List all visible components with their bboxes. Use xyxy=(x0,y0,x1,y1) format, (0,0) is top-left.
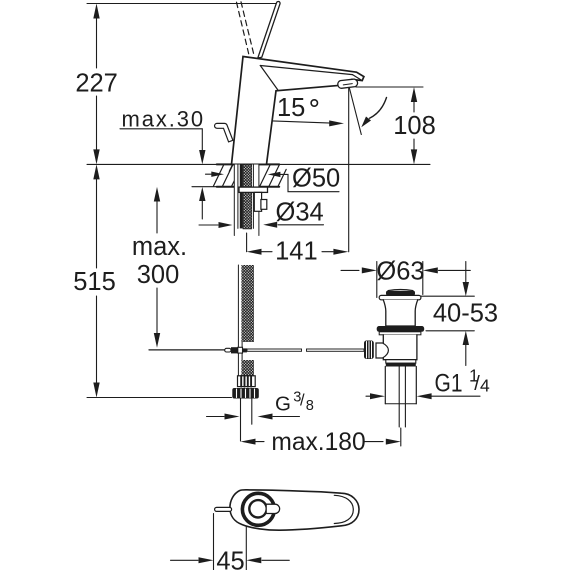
wire: deck/counter top line xyxy=(87,163,430,165)
wire: 15 degree slant line xyxy=(349,88,361,135)
pop-up waste: neck xyxy=(383,300,417,326)
hose end fitting xyxy=(238,376,256,387)
lever handle top view: outline xyxy=(230,490,359,530)
dimension Ø63 xyxy=(341,269,359,271)
handle lever dashed alternate position xyxy=(237,2,255,55)
pop-up waste: inner tube xyxy=(399,367,405,428)
svg-text:300: 300 xyxy=(137,261,180,289)
svg-text:Ø34: Ø34 xyxy=(276,198,324,226)
dimension 515 xyxy=(96,178,98,383)
aerator at spout tip xyxy=(338,79,358,88)
svg-text:Ø63: Ø63 xyxy=(376,257,424,285)
svg-text:max.30: max.30 xyxy=(122,106,206,131)
wire: top extension line of 227 xyxy=(87,3,279,5)
dimension Ø50 xyxy=(206,174,340,192)
lever handle top view: stub xyxy=(267,504,280,513)
pop-up rod horizontal xyxy=(149,349,225,351)
shank side fitting xyxy=(254,192,266,211)
svg-text:G1: G1 xyxy=(435,369,463,397)
extension lines 40-53 xyxy=(421,296,474,331)
wire: spout vertical reference line xyxy=(348,88,350,252)
rod clamp at hose xyxy=(225,348,231,352)
pop-up waste: knurled knob xyxy=(364,341,374,360)
wire: bottom reference line (hose end level) xyxy=(87,397,232,399)
faucet body outline xyxy=(232,57,364,165)
dimension max.300 xyxy=(156,196,158,233)
svg-text:15: 15 xyxy=(277,94,305,122)
dimension 108 xyxy=(356,86,423,88)
deck hatch right xyxy=(260,165,287,187)
mounting shank below faucet xyxy=(234,165,259,229)
svg-text:515: 515 xyxy=(73,268,116,296)
pop-up waste: side boss xyxy=(376,343,388,358)
dimension max.180 xyxy=(241,439,256,445)
dimension 45 xyxy=(171,514,290,570)
svg-text:max.180: max.180 xyxy=(271,429,365,456)
dimension 141 xyxy=(247,233,333,252)
dimension Ø34 xyxy=(199,224,324,226)
svg-text:G: G xyxy=(275,392,291,415)
tube below G3/8 nut xyxy=(241,399,252,442)
pop-up waste: collar xyxy=(377,326,425,332)
dimension 227 xyxy=(96,17,98,151)
deck hatch left xyxy=(213,165,234,187)
lever handle top view: inner circle xyxy=(249,500,266,517)
lever handle top view: inner tip contour xyxy=(334,495,353,523)
pop-up waste: outlet thread tube xyxy=(385,367,416,404)
dimension 40-53 xyxy=(465,262,467,284)
svg-text:4: 4 xyxy=(480,376,490,396)
dimension arrows G3/8 xyxy=(207,416,225,418)
svg-text:8: 8 xyxy=(306,398,314,414)
svg-text:108: 108 xyxy=(393,112,436,140)
lever handle top view: pin xyxy=(215,507,232,511)
svg-text:Ø50: Ø50 xyxy=(292,164,340,192)
svg-text:45: 45 xyxy=(216,547,244,570)
handle lever solid position xyxy=(258,1,280,58)
pop-up waste: body xyxy=(383,335,417,360)
pop-up waste: top flange xyxy=(379,295,421,299)
svg-text:40-53: 40-53 xyxy=(433,299,498,327)
pop-up waste: lift cap xyxy=(388,289,413,290)
svg-text:227: 227 xyxy=(75,69,118,97)
side hook lever on faucet body xyxy=(215,123,233,141)
wire: deck/counter bottom line xyxy=(192,186,279,188)
shank mounting nut xyxy=(239,187,268,192)
svg-text:/: / xyxy=(300,392,305,410)
svg-text:141: 141 xyxy=(275,237,318,265)
faucet body inner edge lines xyxy=(260,66,362,90)
supply hose upper section xyxy=(237,265,239,377)
pop-up waste: lower rings xyxy=(386,360,416,363)
dimension arrows G1 1/4 xyxy=(366,395,371,397)
extension lines Ø63 xyxy=(377,262,423,298)
supply hose lower section xyxy=(241,360,254,377)
svg-text:max.: max. xyxy=(132,233,187,261)
arc arrow for 15 degrees xyxy=(370,98,387,119)
lever handle top view: outer ring xyxy=(242,493,274,525)
G3/8 connection nut xyxy=(232,388,258,399)
